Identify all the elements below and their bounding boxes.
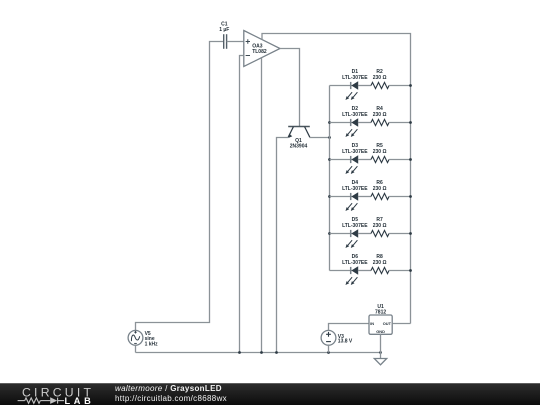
wire D1 row left [330, 85, 352, 87]
resistor R4 230 ohm [371, 106, 389, 125]
wire V3 minus to rail [328, 345, 330, 352]
wire U1 OUT to right rail [392, 323, 410, 325]
junction right rail row D6 [409, 269, 412, 272]
wire U1 GND down [380, 334, 382, 358]
wire R6 to right rail [389, 196, 411, 198]
junction right rail row D3 [409, 158, 412, 161]
junction bottom rail x=380.5 [379, 351, 382, 354]
svg-text:230 Ω: 230 Ω [373, 149, 387, 155]
wire R5 to right rail [389, 159, 411, 161]
LED D1 LTL-307EE [342, 69, 368, 100]
wire D5 row left [330, 233, 352, 235]
svg-text:1 kHz: 1 kHz [145, 341, 159, 347]
LED D6 LTL-307EE [342, 254, 368, 285]
svg-text:LTL-307EE: LTL-307EE [342, 149, 368, 155]
junction right rail row D4 [409, 195, 412, 198]
svg-text:13.8 V: 13.8 V [338, 339, 353, 345]
wire R2 to right rail [389, 85, 411, 87]
svg-text:OUT: OUT [383, 321, 392, 326]
svg-text:7812: 7812 [375, 310, 386, 316]
junction collector on left rail [328, 136, 331, 139]
wire Q1 collector to left rail [310, 136, 330, 138]
svg-text:230 Ω: 230 Ω [373, 223, 387, 229]
LED D4 LTL-307EE [342, 180, 368, 211]
wire V5 plus to C1 left [136, 42, 224, 331]
LED D5 LTL-307EE [342, 217, 368, 248]
wire opamp minus input to ground rail [240, 56, 244, 353]
wire D1 to R2 [358, 85, 371, 87]
regulator U1 7812 [369, 304, 392, 334]
voltage source V3 13.8 V [321, 330, 353, 345]
resistor R6 230 ohm [371, 180, 389, 199]
junction right rail row D5 [409, 232, 412, 235]
wire opamp V- pin down [261, 58, 263, 353]
junction right rail row D1 [409, 84, 412, 87]
wire R4 to right rail [389, 122, 411, 124]
junction bottom rail x=276.5 [275, 351, 278, 354]
svg-text:LTL-307EE: LTL-307EE [342, 260, 368, 266]
op-amp OA3 TL082 [244, 31, 280, 67]
svg-text:LTL-307EE: LTL-307EE [342, 223, 368, 229]
wire D3 row left [330, 159, 352, 161]
svg-text:2N3904: 2N3904 [290, 144, 308, 150]
LED D2 LTL-307EE [342, 106, 368, 137]
wire opamp V+ pin to top rail [262, 34, 411, 324]
wire V3 plus to U1 IN [329, 324, 370, 331]
wire R8 to right rail [389, 270, 411, 272]
svg-text:LTL-307EE: LTL-307EE [342, 186, 368, 192]
svg-text:230 Ω: 230 Ω [373, 260, 387, 266]
junction left rail y=159.5 [328, 158, 331, 161]
resistor R2 230 ohm [371, 69, 389, 88]
wire V5 minus to rail [135, 345, 137, 352]
wire D6 to R8 [358, 270, 371, 272]
logo resistor [25, 398, 41, 403]
wire Q1 emitter down [277, 137, 289, 352]
wire left LED rail [329, 86, 331, 271]
svg-text:TL082: TL082 [252, 49, 267, 55]
junction bottom rail x=328.5 [327, 351, 330, 354]
logo diode [57, 398, 59, 404]
junction bottom rail x=239.5 [238, 351, 241, 354]
capacitor C1 1uF [219, 21, 229, 49]
svg-text:GND: GND [376, 329, 385, 334]
wire D4 row left [330, 196, 352, 198]
transistor Q1 2N3904 [288, 127, 310, 150]
LED D3 LTL-307EE [342, 143, 368, 174]
junction right rail row D2 [409, 121, 412, 124]
svg-text:230 Ω: 230 Ω [373, 112, 387, 118]
svg-text:1 µF: 1 µF [219, 27, 229, 33]
wire D3 to R5 [358, 159, 371, 161]
svg-text:230 Ω: 230 Ω [373, 75, 387, 81]
ground [374, 359, 386, 365]
logo wire [18, 398, 64, 404]
wire C1 to opamp plus input [227, 41, 244, 43]
junction left rail y=122.5 [328, 121, 331, 124]
resistor R5 230 ohm [371, 143, 389, 162]
wire D2 to R4 [358, 122, 371, 124]
junction left rail y=233.5 [328, 232, 331, 235]
svg-text:LAB: LAB [65, 396, 95, 405]
svg-text:LTL-307EE: LTL-307EE [342, 112, 368, 118]
CircuitLab logo [0, 384, 110, 405]
resistor R7 230 ohm [371, 217, 389, 236]
svg-text:IN: IN [370, 321, 374, 326]
wire R7 to right rail [389, 233, 411, 235]
junction bottom rail x=261.5 [260, 351, 263, 354]
svg-text:230 Ω: 230 Ω [373, 186, 387, 192]
wire D4 to R6 [358, 196, 371, 198]
wire bottom common rail [136, 352, 381, 354]
voltage source V5 sine 1 kHz [128, 330, 158, 347]
svg-text:LTL-307EE: LTL-307EE [342, 75, 368, 81]
wire opamp output to Q1 base [280, 49, 300, 127]
wire D2 row left [330, 122, 352, 124]
wire D5 to R7 [358, 233, 371, 235]
junction left rail y=196.5 [328, 195, 331, 198]
wire D6 row left [330, 270, 352, 272]
resistor R8 230 ohm [371, 254, 389, 273]
